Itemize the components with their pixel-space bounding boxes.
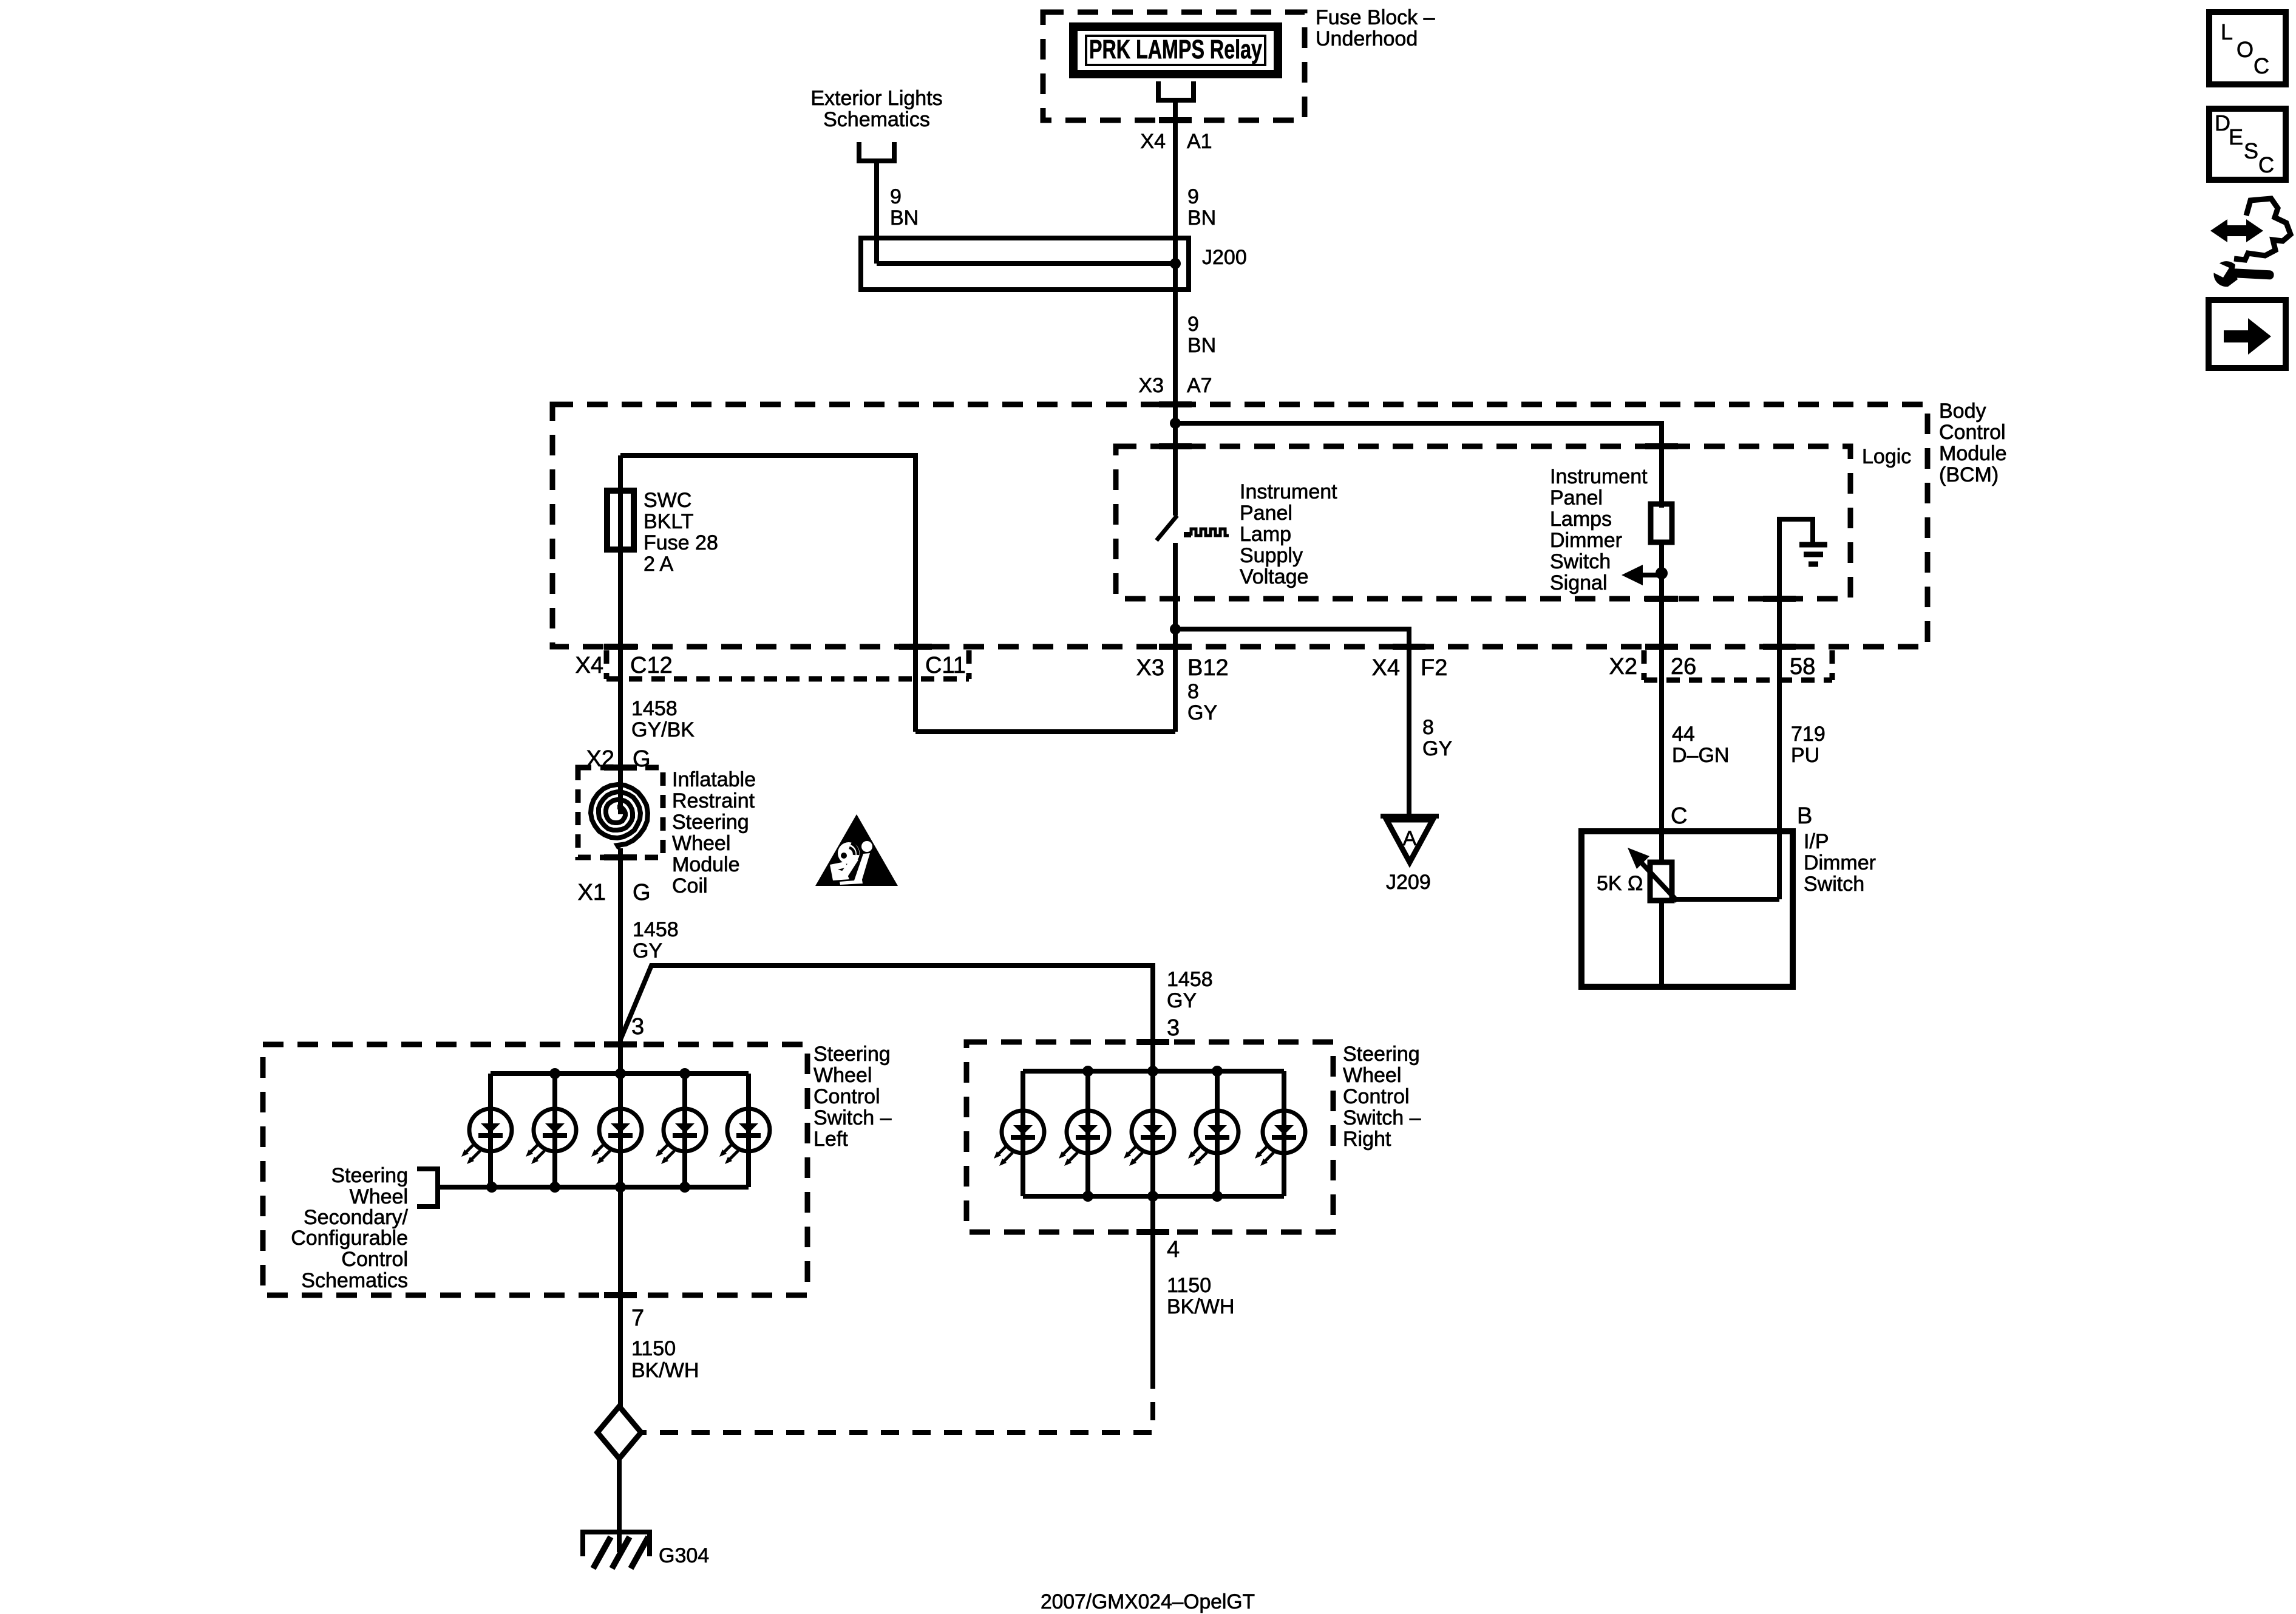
svg-text:Panel: Panel [1240, 502, 1292, 525]
svg-text:Module: Module [1939, 442, 2007, 465]
svg-text:Fuse 28: Fuse 28 [644, 531, 718, 554]
svg-text:X4: X4 [576, 653, 603, 678]
svg-text:Coil: Coil [672, 874, 708, 897]
svg-text:Control: Control [1343, 1085, 1410, 1108]
svg-text:1458: 1458 [633, 918, 679, 941]
junctions bottom bus left [486, 1182, 497, 1193]
svg-text:I/P: I/P [1804, 830, 1829, 853]
ground G304 [583, 1532, 650, 1568]
LED R4 [1188, 1111, 1238, 1166]
svg-text:Steering: Steering [1343, 1043, 1420, 1066]
svg-text:Right: Right [1343, 1128, 1391, 1151]
fuse block underhood dashed box [1043, 12, 1305, 120]
wire exterior lights to J200 [874, 161, 879, 264]
tick A1 crossing [1159, 117, 1192, 123]
wire relay A1 to J200 [1173, 100, 1178, 264]
svg-text:BK/WH: BK/WH [631, 1359, 699, 1382]
junctions bottom bus right [1082, 1191, 1093, 1202]
icon DESC box [2209, 109, 2286, 180]
svg-text:Steering: Steering [672, 811, 749, 834]
junction J200 [1170, 258, 1181, 269]
svg-text:2007/GMX024–OpelGT: 2007/GMX024–OpelGT [1041, 1590, 1255, 1613]
svg-text:Secondary/: Secondary/ [304, 1206, 409, 1229]
LED R1 [994, 1111, 1044, 1166]
connector X2 26 58 dashed [1644, 650, 1832, 680]
relay K (PRK LAMPS Relay) [1073, 27, 1278, 74]
ticks BCM bottom [604, 644, 637, 650]
svg-text:G: G [633, 880, 651, 905]
svg-text:GY: GY [633, 939, 662, 962]
wire branch diagonal [620, 965, 1153, 1071]
potentiometer 5K [1650, 862, 1672, 901]
svg-text:C12: C12 [630, 653, 673, 678]
tick A7 crossing [1159, 401, 1192, 407]
LED bus top right [1023, 1069, 1284, 1074]
svg-text:58: 58 [1790, 654, 1815, 679]
connector C12-C11 dashed [606, 650, 969, 679]
svg-text:Wheel: Wheel [813, 1064, 872, 1087]
svg-text:O: O [2237, 37, 2254, 62]
resistor (dimmer signal) [1651, 504, 1672, 542]
svg-text:8: 8 [1422, 716, 1434, 739]
potentiometer wiper arrow [1642, 863, 1677, 901]
icon LOC box [2209, 12, 2286, 84]
PWM symbol [1184, 532, 1191, 537]
svg-text:1458: 1458 [631, 697, 678, 720]
svg-text:F2: F2 [1421, 655, 1447, 681]
bracket steering wheel secondary [417, 1169, 438, 1207]
switch blade [1156, 516, 1177, 540]
svg-text:GY: GY [1167, 989, 1197, 1012]
ticks right box [1136, 1039, 1169, 1045]
svg-text:Body: Body [1939, 400, 1986, 423]
svg-text:Wheel: Wheel [672, 832, 730, 855]
svg-text:Switch –: Switch – [1343, 1106, 1421, 1129]
LED L1 [461, 1109, 512, 1164]
svg-text:Wheel: Wheel [350, 1185, 408, 1208]
splice J200 box [861, 238, 1189, 290]
fuse SWC BKLT Fuse 28 2A [607, 491, 634, 550]
module BCM dashed box [552, 404, 1927, 647]
svg-text:Switch: Switch [1804, 873, 1864, 896]
svg-text:B12: B12 [1187, 655, 1229, 681]
wire left switch pin7 [618, 1187, 623, 1407]
svg-text:X3: X3 [1138, 374, 1164, 397]
svg-text:Schematics: Schematics [301, 1269, 408, 1292]
svg-text:Lamps: Lamps [1550, 508, 1612, 531]
svg-text:Wheel: Wheel [1343, 1064, 1401, 1087]
wiper to B wire [1677, 897, 1779, 902]
svg-text:Control: Control [813, 1085, 880, 1108]
svg-text:C: C [2254, 53, 2269, 78]
tick logic top crossing right [1645, 443, 1678, 449]
wire inside J200 [877, 261, 1175, 266]
svg-text:44: 44 [1672, 723, 1695, 746]
junction switch out [1170, 624, 1181, 635]
svg-text:GY: GY [1187, 701, 1217, 724]
svg-text:Instrument: Instrument [1240, 480, 1337, 503]
svg-text:3: 3 [1167, 1015, 1180, 1041]
svg-text:Switch: Switch [1550, 550, 1611, 573]
exterior lights bracket [859, 142, 894, 161]
off-page connector A (J209) [1381, 816, 1439, 862]
I/P dimmer switch box [1581, 831, 1793, 987]
SRS warning triangle [815, 814, 898, 886]
relay pin bracket [1158, 81, 1194, 100]
svg-text:S: S [2244, 138, 2258, 163]
svg-text:Steering: Steering [813, 1043, 891, 1066]
svg-text:(BCM): (BCM) [1939, 463, 1999, 486]
wire diamond to ground [617, 1459, 622, 1552]
svg-text:J209: J209 [1386, 871, 1431, 894]
svg-text:Lamp: Lamp [1240, 523, 1291, 546]
svg-text:BN: BN [1187, 206, 1216, 230]
junction node A7 [1170, 418, 1181, 429]
svg-text:C: C [1671, 803, 1687, 829]
svg-text:1150: 1150 [631, 1337, 676, 1360]
LED L2 [526, 1109, 576, 1164]
icon arrow box [2209, 300, 2286, 368]
svg-text:X1: X1 [578, 880, 606, 905]
tick logic top crossing left [1159, 443, 1192, 449]
svg-text:1150: 1150 [1167, 1274, 1211, 1297]
dashed wire right to splice [642, 1371, 1153, 1432]
SRS coil dashed box [578, 768, 663, 857]
wire coil to switches [618, 848, 623, 1074]
svg-text:Panel: Panel [1550, 486, 1603, 509]
svg-text:Signal: Signal [1550, 571, 1608, 594]
svg-text:E: E [2229, 124, 2243, 149]
svg-text:Configurable: Configurable [291, 1227, 408, 1250]
svg-text:BN: BN [1187, 334, 1216, 357]
svg-text:X2: X2 [1609, 654, 1637, 679]
svg-text:Fuse Block –: Fuse Block – [1316, 6, 1435, 29]
LED bus top left [491, 1071, 749, 1076]
LED columns right [1023, 1071, 1284, 1196]
wire right switch pin4 [1150, 1196, 1155, 1371]
svg-text:C11: C11 [925, 653, 966, 678]
LED bus bottom left [438, 1185, 749, 1190]
svg-text:BK/WH: BK/WH [1167, 1295, 1234, 1318]
wire C12 to coil [618, 647, 623, 808]
svg-text:3: 3 [631, 1014, 644, 1040]
LED L4 [656, 1109, 706, 1164]
LED R2 [1059, 1111, 1109, 1166]
wire B inside box [1777, 831, 1782, 899]
wire C inside box [1659, 831, 1664, 862]
ticks left box [604, 1041, 637, 1047]
junction signal [1656, 567, 1668, 579]
svg-text:PRK LAMPS Relay: PRK LAMPS Relay [1089, 35, 1262, 64]
svg-text:X4: X4 [1140, 130, 1166, 153]
wire resistor to X2-26 [1659, 543, 1664, 831]
tick logic bottom crossings [1645, 596, 1678, 602]
wire J200 to BCM A7 [1173, 264, 1178, 423]
wire to F2 [1175, 629, 1409, 816]
svg-text:Supply: Supply [1240, 544, 1303, 567]
svg-text:B: B [1797, 803, 1812, 829]
svg-text:GY: GY [1422, 737, 1452, 760]
svg-text:Instrument: Instrument [1550, 465, 1648, 488]
svg-text:Left: Left [813, 1128, 848, 1151]
ground (logic internal) [1799, 545, 1827, 564]
svg-text:5K Ω: 5K Ω [1597, 872, 1643, 895]
svg-text:1458: 1458 [1167, 968, 1213, 991]
svg-text:Steering: Steering [331, 1164, 408, 1187]
LED R5 [1255, 1111, 1305, 1166]
svg-text:Control: Control [341, 1248, 408, 1271]
wire B12 [1173, 629, 1178, 732]
junctions top bus right [1082, 1066, 1093, 1077]
svg-text:9: 9 [890, 185, 902, 208]
wire 58 to internal ground [1779, 519, 1813, 831]
LED columns left [491, 1074, 749, 1187]
svg-text:Control: Control [1939, 421, 2006, 444]
logic dashed box [1116, 446, 1850, 599]
wire C11 to B12 splice [915, 729, 1175, 734]
fuse 28 wire [618, 455, 623, 647]
module steering wheel control switch right dashed box [966, 1042, 1333, 1232]
switch (IP lamp supply) wire upper [1173, 423, 1178, 516]
svg-text:C: C [2258, 152, 2274, 177]
svg-text:Module: Module [672, 853, 740, 876]
svg-text:Logic: Logic [1862, 445, 1911, 468]
signal arrow [1640, 573, 1662, 577]
svg-text:A1: A1 [1187, 130, 1212, 153]
svg-text:L: L [2221, 19, 2233, 44]
ticks coil box [604, 764, 637, 771]
LED R3 [1124, 1111, 1174, 1166]
switch wire lower [1173, 543, 1178, 629]
svg-text:BKLT: BKLT [644, 510, 694, 533]
svg-text:719: 719 [1791, 723, 1826, 746]
svg-text:9: 9 [1187, 313, 1199, 336]
junctions top bus left [549, 1068, 560, 1079]
svg-text:X3: X3 [1136, 655, 1164, 681]
svg-text:J200: J200 [1202, 246, 1247, 269]
splice diamond [597, 1406, 641, 1459]
svg-text:SWC: SWC [644, 489, 691, 512]
svg-text:Exterior Lights: Exterior Lights [810, 87, 942, 110]
svg-text:4: 4 [1167, 1237, 1180, 1262]
svg-text:Inflatable: Inflatable [672, 768, 756, 791]
svg-text:GY/BK: GY/BK [631, 718, 695, 741]
svg-text:BN: BN [890, 206, 919, 230]
svg-text:A: A [1403, 827, 1417, 850]
wire BCM interior top-left [620, 455, 915, 732]
LED L5 [719, 1109, 770, 1164]
svg-text:PU: PU [1791, 744, 1819, 767]
svg-text:26: 26 [1671, 654, 1696, 679]
svg-text:Switch –: Switch – [813, 1106, 892, 1129]
svg-text:Restraint: Restraint [672, 789, 755, 812]
LED bus bottom right [1023, 1194, 1284, 1199]
svg-text:2 A: 2 A [644, 553, 673, 576]
svg-text:Underhood: Underhood [1316, 27, 1418, 50]
svg-text:G304: G304 [659, 1544, 709, 1567]
wire A7 to logic resistor branch [1175, 423, 1662, 508]
svg-text:D–GN: D–GN [1672, 744, 1729, 767]
svg-text:8: 8 [1187, 680, 1199, 703]
svg-text:Voltage: Voltage [1240, 565, 1308, 588]
icon troubleshooting (arrow + wrench) [2210, 199, 2291, 287]
svg-text:7: 7 [631, 1306, 644, 1331]
svg-text:X4: X4 [1372, 655, 1400, 681]
coil (SRS steering wheel module) [591, 785, 648, 848]
LED L3 [591, 1109, 642, 1164]
svg-text:A7: A7 [1187, 374, 1212, 397]
svg-text:Dimmer: Dimmer [1804, 851, 1876, 874]
module steering wheel control switch left dashed box [263, 1044, 807, 1295]
svg-text:9: 9 [1187, 185, 1199, 208]
svg-text:Schematics: Schematics [823, 108, 930, 131]
svg-text:Dimmer: Dimmer [1550, 529, 1622, 552]
